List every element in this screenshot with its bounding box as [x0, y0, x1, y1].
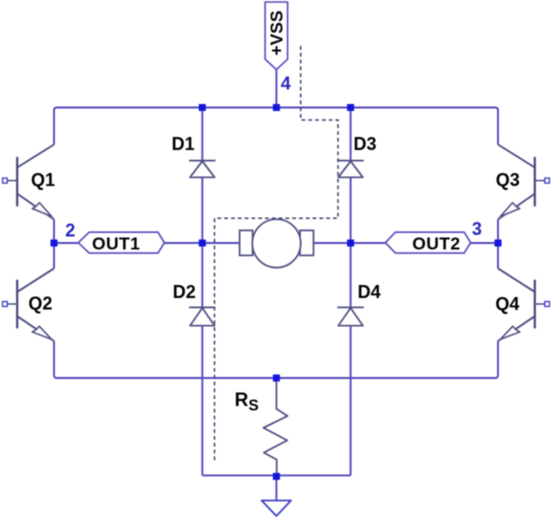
- wire: OUT1 flag to D1/D2 branch node: [164, 242, 202, 244]
- node at D3/D4/motor-right junction: [347, 240, 354, 247]
- net flag OUT2: [385, 232, 470, 253]
- node 4 on top rail at +VSS: [273, 104, 280, 111]
- wire: D1/D2 node to motor left terminal: [202, 242, 239, 244]
- diode D4: [337, 307, 364, 325]
- wire: D3/D4 node to OUT2 flag: [351, 242, 386, 244]
- net flag OUT1: [78, 232, 164, 253]
- svg-text:Q3: Q3: [496, 170, 520, 190]
- transistor Q2: [3, 268, 54, 341]
- wire: D4 branch vertical (mid wire to bottom rail): [350, 243, 352, 475]
- svg-text:Q2: Q2: [28, 294, 52, 314]
- transistor Q4: [498, 268, 549, 341]
- dashed feedback path from +VSS node area to sense resistor: [215, 46, 339, 461]
- wire: ground stem: [275, 475, 277, 500]
- node 2 (Q1/Q2/OUT1 junction): [51, 240, 58, 247]
- motor M (left brush, right brush, rotor circle): [240, 219, 314, 267]
- wire: node 2 to OUT1 flag: [54, 242, 78, 244]
- node at RS bottom / ground junction: [273, 473, 280, 480]
- wire: D3 branch vertical (top rail to mid wire): [350, 108, 352, 244]
- node on top rail at D3 branch: [347, 104, 354, 111]
- power flag +VSS: [265, 2, 288, 70]
- node at D1/D2/motor-left junction: [199, 240, 206, 247]
- wire: node 2 down to Q2 collector bend: [53, 243, 55, 268]
- svg-text:3: 3: [472, 219, 482, 239]
- diode D3: [337, 161, 364, 178]
- wire: OUT2 flag to node 3: [471, 242, 498, 244]
- svg-text:D2: D2: [173, 282, 196, 302]
- diode D1: [189, 161, 216, 178]
- node on top rail at D1 branch: [199, 104, 206, 111]
- wire: D2 branch vertical (mid wire to bottom rail): [201, 243, 203, 475]
- svg-text:2: 2: [65, 221, 75, 241]
- svg-text:D4: D4: [358, 282, 381, 302]
- wire: bottom rail between D2 and D4 legs: [202, 474, 350, 476]
- svg-text:D3: D3: [354, 134, 377, 154]
- ground symbol: [262, 501, 291, 517]
- wire: node 3 down to Q4 collector bend: [497, 243, 499, 268]
- wire: sense rail y=378 from Q2 emitter bend to Q4 emitter bend: [54, 341, 498, 378]
- wire: +VSS stem to top rail: [275, 70, 277, 108]
- svg-text:+VSS: +VSS: [266, 10, 286, 55]
- wire: D1 branch vertical (top rail to mid wire): [201, 108, 203, 244]
- svg-text:D1: D1: [172, 134, 195, 154]
- resistor RS: [263, 378, 287, 475]
- svg-text:Q4: Q4: [495, 294, 519, 314]
- diode D2: [189, 307, 216, 325]
- wire: Q3 emitter bend down to node 3: [497, 219, 499, 243]
- wire: top rail from Q1 collector bend to Q3 collector bend: [54, 108, 498, 145]
- node at RS top on sense rail: [273, 375, 280, 382]
- svg-text:4: 4: [281, 73, 291, 93]
- wire: motor right terminal to D3/D4 node: [314, 242, 351, 244]
- transistor Q3: [498, 145, 549, 220]
- svg-text:OUT2: OUT2: [412, 234, 460, 254]
- svg-text:Q1: Q1: [31, 170, 55, 190]
- node 3 (Q3/Q4/OUT2 junction): [495, 240, 502, 247]
- transistor Q1: [3, 145, 54, 220]
- wire: Q1 emitter bend down to node 2: [53, 219, 55, 243]
- svg-text:OUT1: OUT1: [92, 234, 140, 254]
